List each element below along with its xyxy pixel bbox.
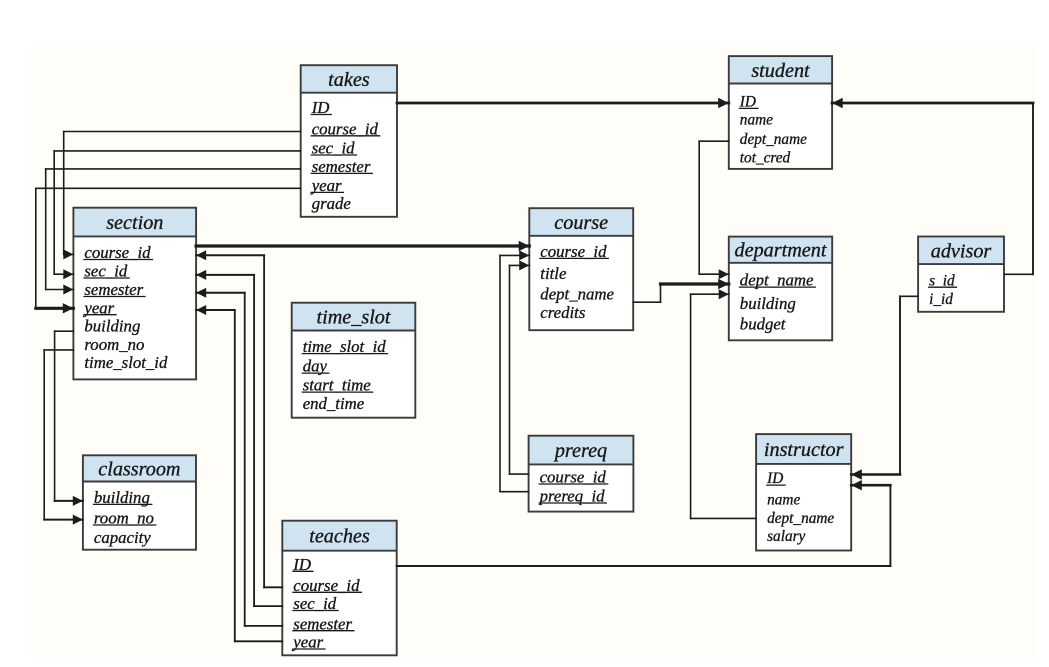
svg-text:i_id: i_id [929, 291, 953, 308]
table section [73, 208, 196, 380]
svg-text:title: title [540, 264, 567, 283]
svg-text:takes: takes [328, 69, 370, 91]
table classroom [83, 455, 196, 549]
svg-text:capacity: capacity [94, 528, 151, 547]
table prereq [529, 436, 634, 512]
svg-text:dept_name: dept_name [767, 510, 834, 527]
link instructor.dept_name to department.dept_name [691, 289, 757, 518]
svg-text:teaches: teaches [309, 526, 370, 548]
link advisor.i_id to instructor.ID [851, 296, 918, 479]
svg-text:tot_cred: tot_cred [740, 150, 791, 167]
link course.dept_name to department.dept_name [633, 279, 729, 302]
svg-text:dept_name: dept_name [740, 131, 807, 148]
link takes.year to section.year [36, 188, 301, 313]
svg-text:room_no: room_no [84, 335, 144, 354]
svg-text:department: department [735, 240, 828, 262]
svg-text:dept_name: dept_name [540, 285, 614, 304]
link takes.semester to section.semester [46, 169, 301, 295]
svg-text:end_time: end_time [303, 394, 365, 413]
svg-text:name: name [740, 112, 773, 129]
link takes.course_id to section.course_id [63, 132, 300, 260]
svg-text:course: course [554, 212, 608, 234]
svg-text:section: section [106, 212, 163, 234]
svg-text:time_slot: time_slot [316, 307, 391, 329]
svg-text:grade: grade [312, 194, 352, 213]
svg-text:budget: budget [740, 315, 786, 334]
link section.building to classroom.building [55, 331, 83, 506]
link teaches.course_id to section.course_id [196, 250, 282, 587]
table advisor [918, 237, 1004, 312]
link advisor.s_id to student.ID [832, 98, 1033, 274]
link teaches.year to section.year [196, 305, 282, 641]
svg-text:instructor: instructor [764, 439, 844, 461]
link student.dept_name to department.dept_name [699, 141, 729, 279]
table student [729, 56, 832, 169]
svg-text:building: building [84, 317, 140, 336]
svg-text:student: student [751, 60, 811, 82]
link teaches.semester to section.semester [196, 288, 282, 626]
svg-text:credits: credits [540, 303, 586, 322]
table course [529, 208, 633, 330]
link takes.ID to student.ID [397, 98, 729, 108]
link takes.sec_id to section.sec_id [54, 151, 301, 279]
table takes [301, 65, 397, 217]
link teaches.sec_id to section.sec_id [196, 270, 282, 606]
link section.course_id to course.course_id [196, 241, 529, 251]
link teaches.ID to instructor.ID [397, 480, 891, 566]
svg-text:classroom: classroom [98, 458, 180, 480]
svg-text:salary: salary [767, 528, 805, 545]
table instructor [756, 434, 851, 550]
link prereq.course_id to course.course_id [510, 260, 530, 474]
table department [729, 237, 832, 341]
link section.room_no to classroom.room_no [44, 350, 83, 525]
svg-text:building: building [740, 294, 796, 313]
svg-text:prereq: prereq [553, 440, 607, 462]
svg-text:advisor: advisor [931, 240, 992, 262]
table teaches [282, 521, 396, 656]
svg-text:time_slot_id: time_slot_id [84, 353, 168, 372]
link prereq.prereq_id to course.course_id [500, 250, 529, 491]
svg-text:name: name [767, 492, 800, 509]
table time_slot [292, 303, 416, 418]
